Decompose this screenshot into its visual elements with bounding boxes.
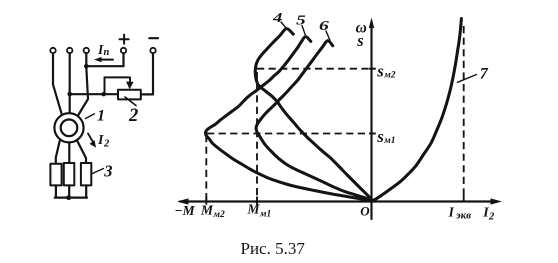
- svg-text:1: 1: [97, 107, 105, 124]
- svg-text:−M: −M: [175, 203, 196, 218]
- svg-text:s: s: [356, 31, 363, 50]
- svg-text:м2: м2: [213, 210, 226, 220]
- svg-text:3: 3: [103, 161, 112, 180]
- svg-text:7: 7: [480, 66, 489, 83]
- svg-text:O: O: [360, 203, 370, 218]
- svg-text:м2: м2: [383, 71, 396, 81]
- svg-text:4: 4: [272, 10, 283, 25]
- svg-text:s: s: [376, 127, 384, 146]
- svg-text:6: 6: [319, 18, 329, 33]
- svg-text:2: 2: [488, 212, 495, 223]
- svg-text:м1: м1: [383, 136, 395, 146]
- svg-text:п: п: [104, 47, 110, 58]
- svg-text:Рис. 5.37: Рис. 5.37: [241, 239, 306, 258]
- svg-text:2: 2: [103, 138, 110, 149]
- svg-text:M: M: [247, 202, 261, 217]
- svg-text:2: 2: [128, 106, 138, 126]
- svg-text:I: I: [97, 133, 104, 148]
- svg-text:M: M: [200, 203, 214, 218]
- svg-text:экв: экв: [455, 209, 471, 221]
- svg-text:м1: м1: [259, 210, 271, 220]
- svg-text:5: 5: [296, 13, 306, 28]
- svg-text:I: I: [448, 204, 455, 219]
- svg-text:s: s: [376, 62, 384, 81]
